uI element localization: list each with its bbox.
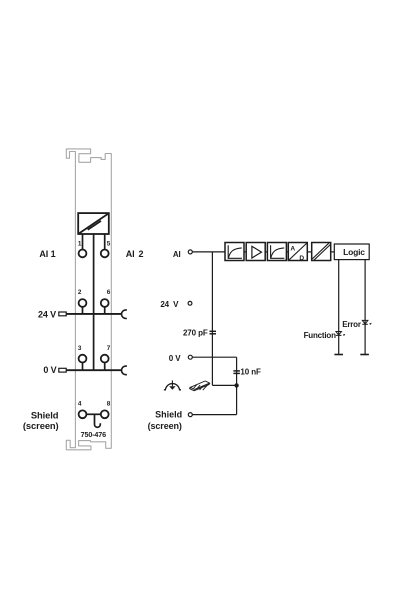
svg-text:7: 7 (107, 345, 111, 352)
wire F1-A1 (244, 251, 246, 253)
terminal 8 (101, 410, 109, 418)
svg-text:4: 4 (78, 401, 82, 408)
svg-text:10 nF: 10 nF (240, 367, 261, 376)
wire shield (192, 414, 236, 416)
filter block F2 (267, 243, 286, 261)
logic block (334, 244, 369, 260)
svg-text:Logic: Logic (343, 247, 365, 257)
0V power jumper contact (122, 366, 127, 375)
wire shield riser (236, 385, 238, 414)
terminal 1 (79, 250, 87, 258)
A/D converter block (288, 243, 307, 261)
wire AI input (192, 251, 225, 253)
wire stub terminal 1 (82, 234, 84, 250)
wire Error LED (364, 260, 366, 355)
wire 0V (192, 356, 236, 358)
filter block F1 (225, 243, 244, 261)
terminal 5 (101, 250, 109, 258)
svg-text:5: 5 (107, 240, 111, 247)
terminal 3 (79, 355, 87, 363)
amplifier block A1 (246, 243, 265, 261)
LED Function (336, 332, 346, 337)
svg-text:6: 6 (107, 289, 111, 296)
svg-text:1: 1 (78, 240, 82, 247)
wire stub terminal 2 (82, 307, 84, 314)
wire 10nF drop (236, 357, 238, 385)
svg-text:D: D (299, 255, 304, 262)
chassis rail symbol (190, 381, 210, 391)
wire 0V rail (66, 369, 121, 371)
wire stub terminal 3 (82, 363, 84, 371)
node 0V terminal (188, 355, 192, 359)
wire Function LED (338, 260, 340, 355)
0V feed contact (59, 368, 66, 372)
svg-text:2: 2 (78, 289, 82, 296)
isolation block (312, 243, 331, 261)
svg-text:0 V: 0 V (169, 354, 181, 363)
Function LED terminator (334, 354, 343, 356)
functional earth symbol (164, 380, 181, 389)
svg-text:8: 8 (107, 401, 111, 408)
wire shield link 4-8 (86, 413, 100, 415)
isolation converter U1 (78, 213, 109, 234)
wire internal bus (93, 234, 95, 370)
svg-text:AI 2: AI 2 (126, 249, 144, 259)
svg-text:270 pF: 270 pF (183, 328, 208, 337)
node AI terminal (188, 250, 192, 254)
wire earth link (212, 384, 236, 386)
node 24V terminal (188, 301, 192, 305)
svg-text:A: A (290, 245, 295, 252)
Error LED terminator (360, 354, 369, 356)
svg-text:Function: Function (304, 331, 336, 340)
24V power jumper contact (122, 310, 127, 319)
svg-text:AI: AI (173, 250, 181, 259)
wire stub terminal 7 (104, 363, 106, 371)
capacitor 270pF (210, 331, 217, 334)
shield stub hook (95, 414, 101, 427)
24V feed contact (59, 312, 66, 316)
svg-text:(screen): (screen) (148, 421, 182, 431)
terminal 6 (101, 299, 109, 307)
svg-text:0 V: 0 V (43, 365, 56, 375)
LED Error (362, 320, 372, 325)
wire 24V rail (66, 313, 121, 315)
terminal 2 (79, 299, 87, 307)
terminal 4 (79, 410, 87, 418)
wire AI drop (211, 252, 213, 386)
svg-text:Error: Error (342, 320, 361, 329)
svg-text:(screen): (screen) (23, 420, 59, 431)
svg-text:750-476: 750-476 (81, 430, 106, 439)
capacitor 10nF (233, 371, 240, 374)
svg-text:Shield: Shield (155, 410, 182, 420)
svg-text:24 V: 24 V (160, 300, 179, 309)
wire A1-F2 (265, 251, 267, 253)
wire AD-ISO (307, 251, 311, 253)
svg-text:24 V: 24 V (38, 310, 56, 320)
svg-text:AI 1: AI 1 (39, 249, 55, 259)
svg-text:3: 3 (78, 345, 82, 352)
wire stub terminal 6 (104, 307, 106, 314)
terminal 7 (101, 355, 109, 363)
wire F2-AD (287, 251, 289, 253)
node junction (234, 383, 238, 387)
module body outline (66, 149, 111, 450)
wire stub terminal 5 (104, 234, 106, 250)
node Shield terminal (188, 413, 192, 417)
wire ISO-Logic (331, 251, 335, 253)
